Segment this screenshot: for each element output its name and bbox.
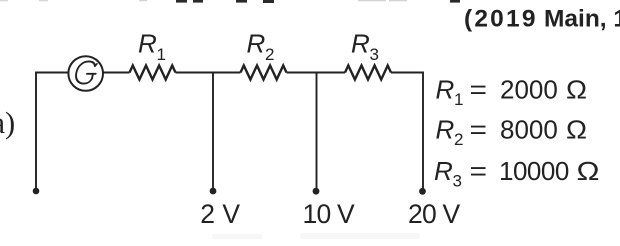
wire: 2V tap vertical xyxy=(212,73,214,191)
value label R3 = 10000 ohm xyxy=(434,156,600,191)
faint scan smudges bottom xyxy=(212,233,420,239)
svg-text:20 V: 20 V xyxy=(408,199,460,229)
svg-text:R: R xyxy=(247,29,266,59)
wire: 10V tap vertical xyxy=(316,73,318,191)
svg-text:2: 2 xyxy=(454,130,463,149)
galvanometer G circle xyxy=(68,56,103,91)
value label R1 = 2000 ohm xyxy=(436,75,588,110)
svg-text:R: R xyxy=(436,75,455,105)
resistor R1 zigzag xyxy=(130,66,176,80)
svg-text:R: R xyxy=(434,156,453,186)
svg-text:R: R xyxy=(436,115,455,145)
value label R2 = 8000 ohm xyxy=(436,115,588,150)
svg-text:1: 1 xyxy=(157,45,166,64)
svg-text:=: = xyxy=(470,156,488,186)
wire: left branch (bottom terminal up, across to galvanometer) xyxy=(36,73,68,192)
svg-text:2000: 2000 xyxy=(500,75,558,105)
node 20V terminal dot xyxy=(419,188,426,195)
svg-text:R: R xyxy=(138,29,157,59)
svg-text:2: 2 xyxy=(265,45,274,64)
wire: R2 to R3 across node 10V xyxy=(287,72,346,74)
svg-text:Ω: Ω xyxy=(566,115,587,145)
svg-text:Ω: Ω xyxy=(566,75,587,105)
cut-off text line fragments (top edge descenders) xyxy=(0,0,460,3)
svg-text:=: = xyxy=(470,75,488,105)
svg-text:(2019: (2019 xyxy=(464,6,538,33)
wire: R1 to R2 through junction of node 2V xyxy=(176,72,241,74)
svg-text:2 V: 2 V xyxy=(200,199,240,229)
node: left terminal dot xyxy=(33,188,40,195)
svg-text:Ω: Ω xyxy=(577,156,600,186)
wire: R3 to right corner, down to 20V node xyxy=(391,73,423,191)
svg-text:3: 3 xyxy=(453,172,462,191)
svg-text:R: R xyxy=(351,29,370,59)
resistor R3 zigzag xyxy=(345,66,391,80)
svg-text:=: = xyxy=(470,115,488,145)
svg-text:1: 1 xyxy=(454,90,463,109)
node 2V junction dot xyxy=(210,188,217,195)
galvanometer G glyph xyxy=(74,61,98,83)
wire: galvanometer to R1 xyxy=(103,72,130,74)
svg-text:10 V: 10 V xyxy=(303,199,355,229)
svg-text:8000: 8000 xyxy=(500,115,558,145)
svg-text:Main, 1: Main, 1 xyxy=(544,6,620,33)
svg-text:10000: 10000 xyxy=(499,156,569,186)
resistor R2 zigzag xyxy=(241,66,287,80)
svg-text:a): a) xyxy=(0,106,15,140)
svg-text:3: 3 xyxy=(370,45,379,64)
node 10V junction dot xyxy=(313,188,320,195)
